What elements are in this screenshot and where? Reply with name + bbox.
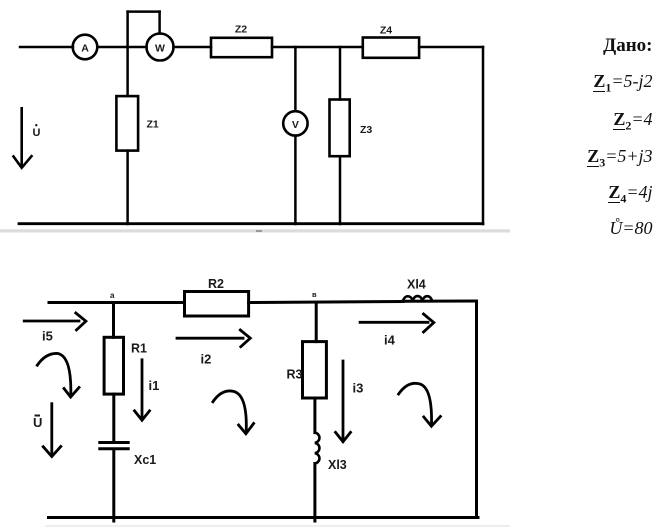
wire: R1 to capacitor (112, 394, 115, 441)
impedance Z1 (116, 96, 159, 151)
faint gray line at page bottom (45, 525, 510, 527)
wire: right side vertical of top circuit (482, 47, 485, 224)
wire: node a down to R1 (112, 303, 115, 338)
svg-text:W: W (155, 43, 165, 55)
wire: top circuit bottom bus (19, 222, 483, 225)
wattmeter W (147, 34, 174, 61)
resistor R2 (185, 277, 249, 316)
inductor Xl3 (315, 433, 347, 472)
wire: wattmeter voltage-coil loop (128, 12, 160, 34)
wire: vertical branch through node to Z1 (126, 12, 129, 96)
wire: Xl3 to bottom bus (313, 464, 316, 522)
inductor Xl4 (403, 278, 432, 302)
wire: voltmeter branch upper (294, 47, 297, 111)
svg-text:в: в (312, 290, 317, 299)
impedance Z3 (330, 100, 373, 157)
resistor R1 (104, 337, 147, 394)
current arrow i5 (24, 313, 86, 344)
svg-text:A: A (81, 43, 89, 55)
svg-text:U: U (33, 127, 41, 139)
wire: bottom circuit bottom bus (49, 516, 479, 519)
impedance Z2 (211, 24, 272, 58)
current arrow i3 (336, 361, 364, 442)
loop arrow 3 (399, 383, 441, 426)
source arrow U of top circuit (14, 108, 41, 168)
svg-text:i1: i1 (149, 378, 160, 393)
wire: R3 to inductor Xl3 (313, 398, 316, 433)
wire: top circuit main horizontal bus (20, 46, 483, 49)
value Z3 (587, 146, 652, 171)
wire: right side vertical of bottom circuit (475, 301, 478, 518)
svg-text:Xl4: Xl4 (407, 278, 426, 292)
ammeter A (73, 35, 98, 60)
current arrow i1 (135, 360, 160, 421)
svg-text:i2: i2 (201, 352, 212, 367)
given-data text block (453, 0, 653, 1)
value U (609, 218, 652, 239)
loop arrow 2 (213, 391, 254, 434)
svg-text:R3: R3 (287, 368, 303, 382)
svg-text:Z1: Z1 (147, 119, 159, 131)
svg-text:R2: R2 (208, 277, 224, 291)
value Z4 (608, 182, 652, 207)
svg-text:i5: i5 (42, 329, 53, 344)
svg-text:i3: i3 (353, 381, 364, 396)
value Z2 (613, 109, 652, 134)
svg-text:Xl3: Xl3 (328, 458, 347, 472)
wire: bottom circuit top bus (49, 301, 477, 303)
source arrow U of bottom circuit (33, 404, 61, 457)
resistor R3 (287, 342, 327, 398)
capacitor Xc1 (100, 443, 156, 468)
svg-text:Z2: Z2 (235, 24, 247, 36)
svg-text:Z4: Z4 (380, 25, 392, 37)
wire: voltmeter branch lower (294, 136, 297, 224)
value Z1 (593, 71, 652, 96)
svg-text:Z3: Z3 (360, 124, 372, 136)
svg-text:U: U (33, 415, 42, 430)
heading Dano (603, 35, 652, 57)
wire: Z3 branch lower (339, 156, 342, 224)
svg-text:V: V (292, 119, 299, 131)
current arrow i4 (360, 314, 434, 348)
svg-text:R1: R1 (131, 342, 147, 356)
current arrow i2 (177, 330, 250, 367)
wire: capacitor to bottom bus (112, 450, 115, 521)
wire: node B down to R3 (315, 303, 318, 342)
svg-text:Xc1: Xc1 (134, 453, 156, 467)
voltmeter V (283, 111, 307, 135)
svg-text:a: a (110, 291, 115, 300)
loop arrow 1 (37, 353, 79, 397)
separator gray band under pasted image (0, 229, 510, 232)
wire: Z3 branch upper (339, 47, 342, 100)
impedance Z4 (363, 25, 419, 58)
svg-text:i4: i4 (384, 333, 396, 348)
wire: Z1 to bottom bus (126, 151, 129, 224)
